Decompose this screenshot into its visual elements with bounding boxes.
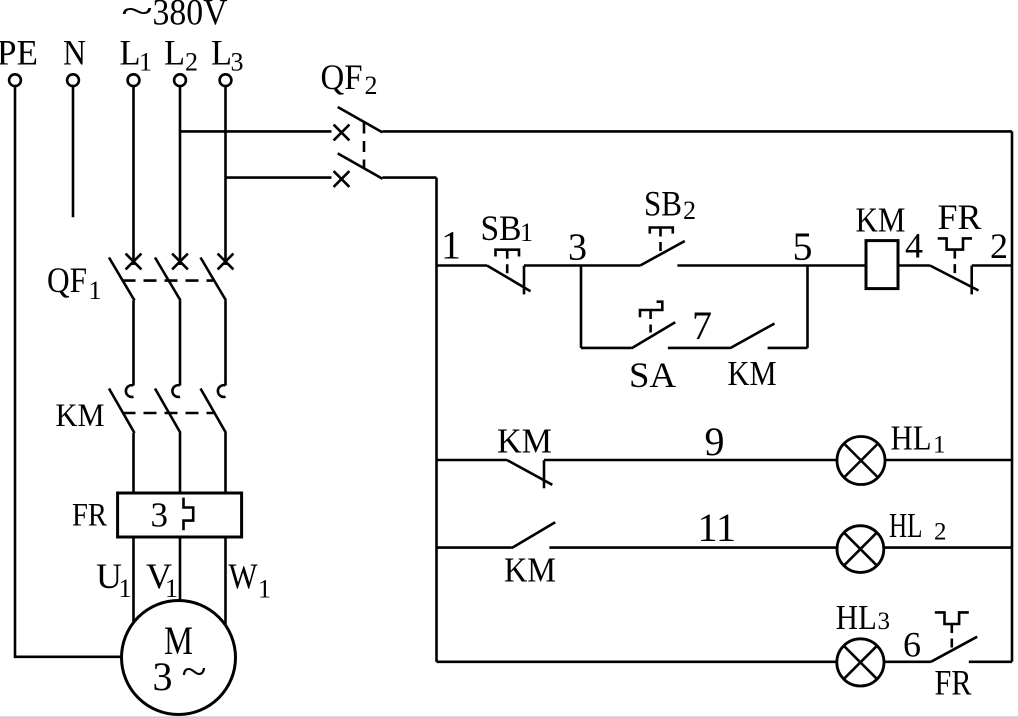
breaker QF2 upper pole cross — [334, 125, 350, 141]
switch SA stem dashed — [649, 311, 652, 337]
breaker QF1 linkage dashed — [123, 279, 214, 282]
contactor KM pole1 blade — [109, 389, 135, 434]
svg-text:SA: SA — [629, 355, 676, 395]
svg-text:1: 1 — [933, 432, 946, 459]
breaker QF2 upper pole blade — [338, 107, 383, 132]
thermal contact FR top actuator — [938, 238, 972, 249]
wire left bus — [435, 178, 438, 662]
thermal contact FR bottom blade — [931, 637, 977, 662]
switch SA handle — [640, 302, 662, 318]
svg-text:1: 1 — [89, 276, 102, 305]
svg-text:9: 9 — [705, 419, 725, 464]
svg-text:SB: SB — [644, 184, 682, 224]
svg-text:2: 2 — [365, 71, 378, 100]
wire N — [72, 86, 75, 217]
page bottom edge artifact — [0, 716, 1018, 718]
wire L3 to QF2 lower pole — [226, 176, 332, 179]
svg-text:HL: HL — [836, 598, 877, 637]
lamp HL1 cross — [844, 444, 878, 478]
svg-text:11: 11 — [698, 505, 737, 550]
lamp HL1 circle — [837, 437, 885, 485]
svg-text:1: 1 — [119, 574, 132, 603]
svg-text:SB: SB — [481, 208, 522, 248]
thermal contact FR top blade — [930, 266, 979, 291]
svg-text:KM: KM — [56, 398, 105, 434]
pushbutton SB1 contact bar — [523, 266, 526, 295]
contactor KM pole2 contact arc — [172, 385, 180, 397]
wire rung3 mid — [549, 546, 837, 549]
wire rung3 right — [884, 546, 1012, 549]
svg-text:5: 5 — [793, 224, 813, 269]
svg-text:FR: FR — [935, 663, 972, 703]
wire right bus — [1011, 131, 1014, 661]
wire PE — [15, 86, 122, 657]
aux contact KM branch blade — [730, 324, 775, 349]
contactor KM pole3 contact arc — [218, 385, 226, 397]
svg-text:PE: PE — [0, 33, 38, 73]
wire lamp HL3 to FR — [884, 660, 931, 663]
wire rung2 right — [885, 459, 1012, 462]
svg-text:KM: KM — [504, 551, 556, 590]
svg-text:3: 3 — [231, 48, 244, 77]
contactor KM linkage dashed — [123, 412, 214, 415]
pushbutton SB1 blade — [487, 266, 531, 292]
contactor KM pole1 contact arc — [126, 385, 134, 397]
wire branch left — [581, 347, 632, 350]
wire QF2 lower output — [383, 176, 437, 179]
svg-text:1: 1 — [139, 48, 152, 77]
svg-text:380V: 380V — [153, 0, 228, 34]
svg-text:KM: KM — [856, 201, 906, 240]
pushbutton SB2 cap — [650, 228, 673, 234]
node 3 branch vertical — [580, 266, 583, 348]
svg-text:HL: HL — [891, 419, 932, 458]
aux contact KM NO blade — [512, 522, 555, 548]
svg-text:2: 2 — [990, 226, 1008, 266]
wire coil to FR — [898, 264, 930, 267]
breaker QF1 pole2 cross — [172, 254, 188, 270]
svg-text:1: 1 — [165, 574, 178, 603]
terminal L2 — [174, 74, 186, 86]
svg-text:3: 3 — [568, 227, 587, 269]
wire rung4 left — [437, 660, 838, 663]
svg-text:QF: QF — [321, 57, 363, 97]
contactor KM pole3 blade — [201, 389, 227, 434]
svg-text:~: ~ — [182, 649, 207, 694]
wire L2 lower — [179, 433, 182, 493]
svg-text:L: L — [120, 33, 141, 73]
thermal contact FR top stem dashed — [953, 250, 956, 277]
svg-text:2: 2 — [683, 196, 696, 225]
terminal PE — [9, 74, 21, 86]
motor M circle — [122, 601, 236, 715]
svg-text:4: 4 — [905, 226, 923, 266]
svg-text:KM: KM — [728, 354, 777, 393]
wire FR to bus — [972, 264, 1012, 267]
terminal N — [67, 74, 79, 86]
breaker QF1 pole1 cross — [126, 254, 142, 270]
pushbutton SB2 stem dashed — [659, 228, 662, 255]
thermal contact FR top bar — [970, 266, 973, 295]
aux contact KM NC blade — [507, 460, 552, 485]
breaker QF2 lower pole cross — [334, 171, 350, 187]
wire V1 — [179, 537, 182, 601]
svg-text:KM: KM — [497, 422, 552, 461]
breaker QF1 pole2 blade — [155, 258, 181, 301]
wire L3 mid — [224, 301, 227, 386]
lamp HL2 cross — [844, 533, 877, 566]
wire top bus — [383, 130, 1013, 133]
aux contact KM NC bar — [543, 460, 546, 488]
contactor KM pole2 blade — [155, 389, 181, 434]
svg-text:QF: QF — [47, 260, 87, 300]
thermal contact FR bottom actuator — [935, 612, 969, 624]
node 5 branch vertical — [806, 266, 809, 348]
wire rung2 mid — [544, 459, 837, 462]
thermal relay FR heater box — [118, 493, 242, 537]
wire L1 lower — [132, 433, 135, 493]
svg-text:3: 3 — [153, 654, 173, 699]
wire rung3 left — [437, 546, 512, 549]
wire L3 lower — [224, 433, 227, 493]
terminal L3 — [220, 74, 232, 86]
svg-text:6: 6 — [903, 625, 921, 665]
wire SB2 to coil — [677, 264, 866, 267]
svg-text:W: W — [229, 556, 258, 596]
wire W1 — [224, 537, 227, 625]
wire L2 — [179, 86, 182, 265]
wire L1 — [132, 86, 135, 265]
pushbutton SB1 cap — [496, 250, 520, 257]
breaker QF1 pole3 blade — [201, 258, 227, 301]
lamp HL3 circle — [837, 639, 884, 686]
pushbutton SB1 stem dashed — [506, 250, 509, 278]
svg-text:N: N — [63, 33, 86, 73]
breaker QF2 linkage dashed — [363, 123, 366, 169]
wire L1 mid — [132, 301, 135, 386]
wire SA to KM aux — [668, 347, 730, 350]
coil KM box — [866, 241, 898, 289]
wire FR bottom to bus — [969, 660, 1012, 663]
svg-text:FR: FR — [938, 197, 982, 237]
wire U1 — [132, 537, 135, 622]
svg-text:L: L — [211, 33, 232, 73]
breaker QF1 pole1 blade — [109, 258, 135, 301]
wire SB1 to SB2 — [524, 264, 640, 267]
thermal relay FR heater element — [184, 498, 194, 531]
pushbutton SB2 blade — [640, 241, 685, 266]
wire L2 to QF2 upper pole — [180, 130, 332, 133]
svg-text:3: 3 — [151, 496, 169, 535]
svg-text:~: ~ — [121, 0, 153, 31]
wire rung1 left — [437, 264, 488, 267]
svg-text:3: 3 — [878, 608, 891, 635]
svg-text:7: 7 — [692, 303, 712, 348]
wire KM aux to node5 — [768, 347, 808, 350]
terminal L1 — [128, 74, 140, 86]
lamp HL3 cross — [844, 646, 877, 679]
breaker QF2 lower pole blade — [338, 153, 383, 178]
svg-text:2: 2 — [185, 48, 198, 77]
breaker QF1 pole3 cross — [218, 254, 234, 270]
switch SA blade — [632, 322, 676, 348]
wire rung2 left — [437, 459, 508, 462]
svg-text:L: L — [164, 33, 185, 73]
svg-text:HL: HL — [889, 506, 923, 545]
svg-text:2: 2 — [934, 519, 947, 546]
svg-text:FR: FR — [72, 498, 107, 534]
svg-text:1: 1 — [520, 218, 533, 247]
lamp HL2 circle — [837, 526, 884, 573]
svg-text:1: 1 — [441, 223, 461, 268]
wire L3 — [224, 86, 227, 265]
wire L2 mid — [179, 301, 182, 386]
svg-text:1: 1 — [258, 575, 271, 604]
thermal contact FR bottom stem dashed — [950, 624, 953, 650]
